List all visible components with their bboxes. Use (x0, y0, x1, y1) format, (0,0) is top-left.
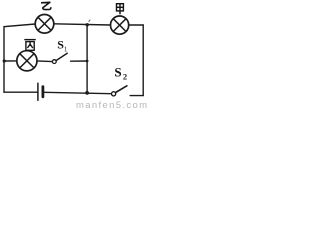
svg-text:manfen5.com: manfen5.com (76, 100, 148, 109)
wire bottom left (corner to battery) (4, 91, 37, 93)
wire middle vertical (86, 25, 88, 93)
svg-text:1: 1 (64, 45, 68, 54)
lamp 乙 (35, 14, 54, 33)
wire lamp 丙 to switch S1 (37, 60, 52, 63)
battery short thick plate (42, 87, 45, 97)
junction node B (bottom of middle branch) (85, 91, 89, 95)
small tick mark above node A (89, 20, 91, 22)
wire right vertical (142, 25, 144, 96)
switch S1 contact circle (52, 60, 56, 64)
wire left vertical (4, 24, 35, 92)
wire top middle (lamp 乙 to lamp 甲) (54, 24, 111, 25)
label 丙 (drawn strokes) (24, 40, 36, 51)
switch S2 lever (116, 86, 127, 93)
wire top right (129, 24, 144, 26)
switch S1 lever (56, 53, 67, 60)
junction node on left vertical (lamp 丙 branch) (3, 59, 6, 62)
battery long thin plate (37, 83, 39, 100)
junction node A (top of middle branch) (86, 23, 89, 26)
wire switch S1 to middle vertical (71, 60, 88, 62)
lamp 甲 (111, 16, 129, 34)
svg-text:S: S (114, 64, 121, 79)
svg-text:2: 2 (123, 72, 127, 82)
wire battery to switch S2 (44, 92, 112, 93)
wire S1 row left (node to lamp 丙) (4, 60, 17, 62)
lamp 丙 (17, 51, 37, 71)
label 乙 (drawn strokes) (41, 2, 51, 9)
wire bottom right stub (130, 95, 143, 97)
switch S2 contact circle (112, 92, 116, 96)
label 甲 (drawn strokes) (117, 4, 124, 15)
junction node S1 row / middle vertical (86, 60, 89, 63)
